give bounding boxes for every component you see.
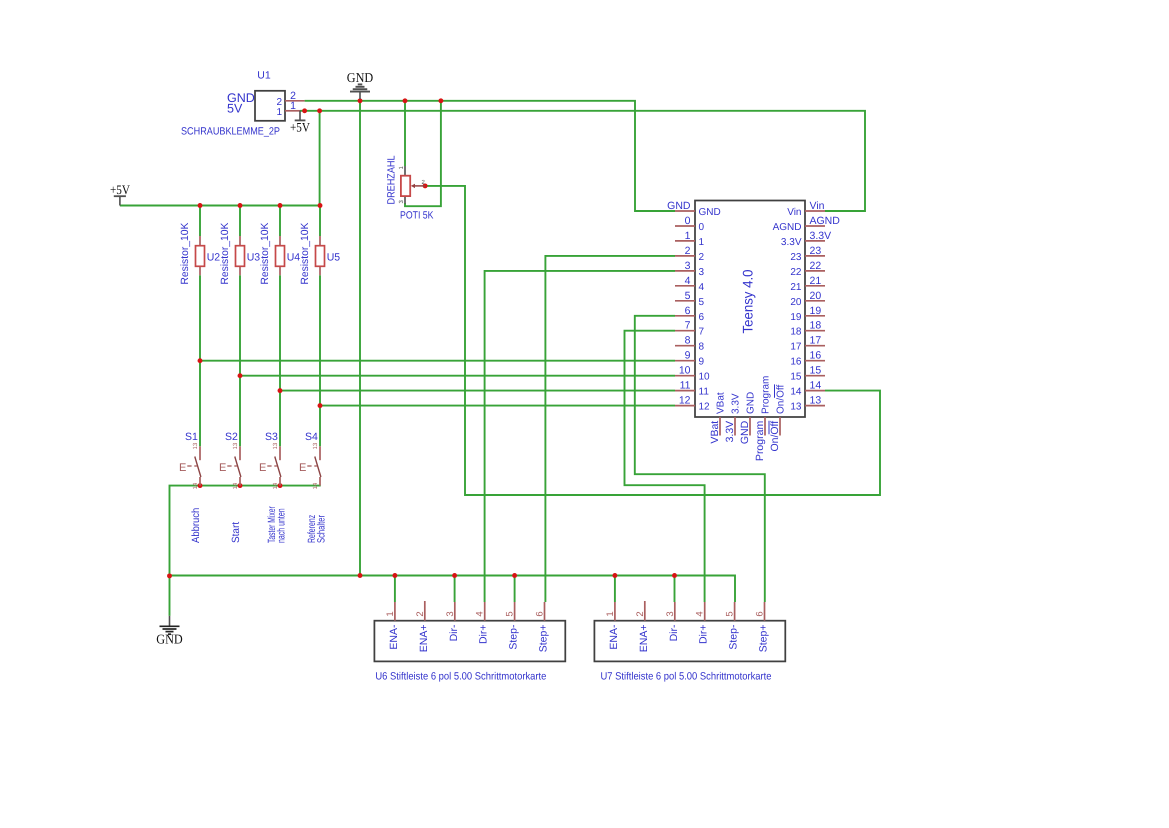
junction node S3 tap — [278, 388, 283, 393]
svg-text:1: 1 — [699, 237, 705, 248]
U7 pin 3 Dir- — [665, 602, 680, 641]
svg-text:21: 21 — [790, 282, 802, 293]
svg-text:9: 9 — [685, 350, 691, 362]
S2 pin 13 — [232, 442, 239, 449]
svg-text:10: 10 — [679, 365, 691, 377]
svg-text:3: 3 — [445, 611, 456, 616]
svg-text:U5: U5 — [327, 251, 341, 263]
svg-text:5V: 5V — [227, 102, 243, 116]
Teensy right pin 20 — [790, 290, 825, 308]
svg-text:2: 2 — [415, 611, 426, 616]
S4 pin 13 — [312, 442, 319, 449]
switch S3 — [259, 446, 281, 485]
switch S1 — [179, 446, 201, 485]
svg-text:Vin: Vin — [787, 207, 801, 218]
svg-text:Resistor_10K: Resistor_10K — [259, 223, 271, 285]
svg-text:4: 4 — [699, 282, 705, 293]
svg-text:17: 17 — [810, 335, 822, 347]
svg-text:1: 1 — [290, 100, 296, 112]
wire tap node S4 to Teensy pin12 — [320, 405, 675, 407]
Teensy right pin AGND — [773, 215, 841, 233]
svg-text:Step-: Step- — [728, 624, 740, 650]
svg-text:Resistor_10K: Resistor_10K — [179, 223, 191, 285]
svg-text:AGND: AGND — [810, 215, 841, 227]
junction +5V drop — [317, 108, 322, 113]
svg-text:4: 4 — [475, 611, 486, 616]
pin header U6 body — [374, 621, 565, 662]
S2 function label — [230, 522, 242, 543]
wire resistor bottom to switch col 320 — [319, 275, 321, 446]
svg-text:6: 6 — [685, 305, 691, 317]
svg-text:13: 13 — [790, 402, 802, 413]
junction GND rail U6p1 — [392, 573, 397, 578]
U7 pin 4 Dir+ — [695, 602, 710, 644]
S1 pin 14 — [192, 482, 199, 489]
svg-text:ENA+: ENA+ — [418, 625, 430, 653]
svg-text:13: 13 — [312, 442, 319, 449]
svg-text:16: 16 — [790, 357, 802, 368]
U6 pin 3 Dir- — [445, 602, 460, 641]
S1 reference label — [185, 431, 198, 443]
svg-text:U1: U1 — [257, 70, 271, 82]
U2 value Resistor_10K — [179, 223, 191, 285]
U1 pin 2 — [276, 90, 304, 108]
junction GND rail x360 — [358, 573, 363, 578]
svg-text:+5V: +5V — [290, 120, 311, 135]
S3 function label — [266, 506, 287, 543]
wire tap node S2 to Teensy pin10 — [240, 375, 675, 377]
wire GND bus U1 pin2 to Teensy — [305, 101, 675, 211]
svg-text:GND: GND — [739, 420, 751, 444]
U7 pin 1 ENA- — [605, 602, 620, 650]
Teensy right pin 22 — [790, 260, 825, 278]
U6 pin 4 Dir+ — [475, 602, 490, 644]
svg-text:On/Off: On/Off — [769, 421, 781, 452]
U7 pin 2 ENA+ — [635, 601, 650, 652]
wire pot wiper to Teensy pin14 — [425, 186, 880, 495]
svg-text:GND: GND — [347, 70, 374, 85]
S3 reference label — [265, 431, 278, 443]
junction GND corner — [167, 573, 172, 578]
Teensy left pin 3 — [675, 260, 705, 278]
switch S4 — [299, 446, 321, 485]
switch S2 — [219, 446, 241, 485]
svg-text:S2: S2 — [225, 431, 238, 443]
Teensy bottom pin On/Off — [769, 384, 787, 451]
svg-text:0: 0 — [685, 215, 691, 227]
svg-text:20: 20 — [810, 290, 822, 302]
svg-text:15: 15 — [790, 372, 802, 383]
svg-text:Teensy 4.0: Teensy 4.0 — [740, 269, 756, 333]
svg-text:5: 5 — [685, 290, 691, 302]
wire pot bottom loop to GND bus — [405, 101, 441, 206]
svg-text:8: 8 — [685, 335, 691, 347]
svg-text:DREHZAHL: DREHZAHL — [386, 155, 398, 204]
svg-text:1: 1 — [685, 230, 691, 242]
svg-text:23: 23 — [790, 252, 802, 263]
wire +5V bus U1 pin1 to Vin riser — [300, 111, 865, 211]
wire GND rail drop to U6 pin3 — [454, 576, 456, 603]
svg-text:8: 8 — [699, 342, 705, 353]
svg-text:+5V: +5V — [110, 182, 131, 197]
wire tap node S3 to Teensy pin11 — [280, 390, 675, 392]
Teensy bottom pin 3.3V — [724, 393, 742, 442]
power symbol +5V at U1 pin1 — [290, 111, 311, 135]
S2 reference label — [225, 431, 238, 443]
svg-text:4: 4 — [695, 611, 706, 616]
pin header U7 body — [594, 621, 785, 662]
U6 pin 6 Step+ — [535, 602, 550, 652]
junction rail U3 — [238, 203, 243, 208]
svg-text:GND: GND — [699, 207, 721, 218]
svg-text:GND: GND — [746, 392, 757, 414]
U7 value label — [601, 671, 772, 683]
Teensy title label — [740, 269, 756, 333]
U6 value label — [375, 671, 546, 683]
Teensy left pin 10 — [675, 365, 710, 383]
svg-text:13: 13 — [272, 442, 279, 449]
pot value POTI 5K — [400, 210, 434, 222]
svg-text:3.3V: 3.3V — [724, 421, 736, 443]
U3 reference label — [247, 251, 261, 263]
junction rail U5 — [318, 203, 323, 208]
svg-text:6: 6 — [699, 312, 705, 323]
svg-text:14: 14 — [192, 482, 199, 489]
svg-text:20: 20 — [790, 297, 802, 308]
svg-text:14: 14 — [790, 387, 802, 398]
Teensy right pin 23 — [790, 245, 825, 263]
Teensy right pin 14 — [790, 380, 825, 398]
wire resistor bottom to switch col 240 — [239, 275, 241, 446]
svg-text:GND: GND — [667, 200, 691, 212]
junction pot bottom — [438, 98, 443, 103]
svg-text:14: 14 — [232, 482, 239, 489]
svg-text:ENA+: ENA+ — [638, 625, 650, 653]
svg-text:3.3V: 3.3V — [731, 393, 742, 414]
wire switch common rail — [170, 486, 321, 616]
junction GND rail U7p3 — [672, 573, 677, 578]
svg-text:nach unten: nach unten — [276, 508, 288, 543]
svg-text:SCHRAUBKLEMME_2P: SCHRAUBKLEMME_2P — [181, 126, 280, 138]
wire +5V drop to resistor rail — [319, 111, 321, 206]
svg-text:ENA-: ENA- — [388, 624, 400, 650]
svg-text:3.3V: 3.3V — [810, 230, 832, 242]
svg-text:11: 11 — [699, 387, 710, 398]
junction GND rail U7p1 — [612, 573, 617, 578]
wire resistor top lead col 280 — [279, 206, 281, 237]
svg-text:ENA-: ENA- — [608, 624, 620, 650]
Teensy right pin 16 — [790, 350, 825, 368]
svg-text:1: 1 — [385, 611, 396, 616]
S2 pin 14 — [232, 482, 239, 489]
S4 pin 14 — [312, 482, 319, 489]
wire bottom GND rail — [170, 576, 736, 603]
svg-text:21: 21 — [810, 275, 822, 287]
svg-text:14: 14 — [312, 482, 319, 489]
svg-text:Dir-: Dir- — [668, 624, 680, 641]
power symbol GND bottom — [156, 616, 183, 647]
S4 reference label — [305, 431, 318, 443]
svg-text:11: 11 — [680, 380, 691, 392]
junction GND rail U6p3 — [452, 573, 457, 578]
svg-text:12: 12 — [679, 395, 691, 407]
svg-text:18: 18 — [790, 327, 802, 338]
svg-text:Dir+: Dir+ — [478, 625, 490, 645]
svg-text:14: 14 — [810, 380, 822, 392]
svg-text:Vin: Vin — [810, 200, 825, 212]
svg-text:16: 16 — [810, 350, 822, 362]
Teensy left pin 1 — [675, 230, 705, 248]
svg-text:18: 18 — [810, 320, 822, 332]
Teensy right pin 21 — [790, 275, 825, 293]
pot label DREHZAHL — [386, 155, 398, 204]
Teensy right pin 18 — [790, 320, 825, 338]
Teensy left pin 4 — [675, 275, 705, 293]
svg-text:S4: S4 — [305, 431, 318, 443]
wire resistor top lead col 240 — [239, 206, 241, 237]
wire GND rail drop to U7 pin1 — [614, 576, 616, 603]
svg-text:2: 2 — [685, 245, 691, 257]
Teensy left pin 6 — [675, 305, 705, 323]
U4 reference label — [287, 251, 301, 263]
svg-text:22: 22 — [810, 260, 822, 272]
junction switch rail S2 — [238, 483, 243, 488]
wire Teensy pin3 to U6 pin4 — [485, 271, 675, 602]
U3 value Resistor_10K — [219, 223, 231, 285]
Teensy right pin 19 — [790, 305, 825, 323]
svg-text:Step+: Step+ — [758, 625, 770, 653]
svg-text:12: 12 — [699, 402, 711, 413]
Teensy left pin 12 — [675, 395, 710, 413]
wire pot top to GND bus — [404, 101, 406, 166]
svg-text:GND: GND — [156, 631, 183, 646]
svg-text:15: 15 — [810, 365, 822, 377]
U7 pin 5 Step- — [725, 602, 740, 650]
wire GND rail drop to U6 pin5 — [514, 576, 516, 603]
svg-text:1: 1 — [276, 107, 282, 118]
S1 function label — [190, 508, 202, 543]
Teensy 4.0 body — [695, 201, 805, 418]
svg-text:VBat: VBat — [709, 421, 721, 444]
svg-text:2: 2 — [635, 611, 646, 616]
svg-text:Program: Program — [761, 376, 772, 414]
svg-text:5: 5 — [505, 611, 516, 616]
svg-text:13: 13 — [192, 442, 199, 449]
resistor U3 Resistor_10K — [236, 236, 245, 275]
power symbol +5V at resistor rail — [110, 182, 131, 205]
Teensy right pin 15 — [790, 365, 825, 383]
svg-text:Abbruch: Abbruch — [190, 508, 202, 543]
Teensy left pin 5 — [675, 290, 705, 308]
svg-text:19: 19 — [810, 305, 822, 317]
U5 reference label — [327, 251, 341, 263]
Teensy left pin 8 — [675, 335, 705, 353]
net label 5V — [227, 102, 243, 116]
svg-text:5: 5 — [699, 297, 705, 308]
wire Teensy pin6 to U7 pin6 — [635, 316, 765, 602]
U1 reference label — [257, 70, 271, 82]
svg-text:S3: S3 — [265, 431, 278, 443]
svg-text:Schalter: Schalter — [316, 515, 328, 543]
wire Teensy pin2 to U6 pin6 — [545, 256, 675, 602]
svg-text:4: 4 — [685, 275, 691, 287]
potentiometer U? DREHZAHL POTI 5K — [398, 166, 425, 204]
svg-text:6: 6 — [535, 611, 546, 616]
wire resistor bottom to switch col 280 — [279, 275, 281, 446]
wire resistor top lead col 200 — [199, 206, 201, 237]
junction node S1 tap — [198, 358, 203, 363]
Teensy right pin 17 — [790, 335, 825, 353]
Teensy left pin 2 — [675, 245, 705, 263]
S1 pin 13 — [192, 442, 199, 449]
svg-text:AGND: AGND — [773, 222, 802, 233]
svg-text:S1: S1 — [185, 431, 198, 443]
U4 value Resistor_10K — [259, 223, 271, 285]
svg-text:U6 Stiftleiste 6 pol 5.00 Sc: U6 Stiftleiste 6 pol 5.00 Schrittmotorka… — [375, 671, 546, 683]
svg-text:Step+: Step+ — [538, 625, 550, 653]
wire GND rail drop to U6 pin1 — [394, 576, 396, 603]
wire tap node S1 to Teensy pin9 — [200, 360, 675, 362]
svg-text:3: 3 — [685, 260, 691, 272]
Teensy right pin 3.3V — [781, 230, 831, 248]
junction +5V symbol at U1 — [302, 108, 307, 113]
S3 pin 14 — [272, 482, 279, 489]
resistor U5 Resistor_10K — [316, 236, 325, 275]
svg-text:Dir+: Dir+ — [698, 625, 710, 645]
svg-text:1: 1 — [605, 611, 616, 616]
resistor U2 Resistor_10K — [196, 236, 205, 275]
svg-text:Resistor_10K: Resistor_10K — [219, 223, 231, 285]
junction node S4 tap — [318, 403, 323, 408]
svg-text:5: 5 — [725, 611, 736, 616]
Teensy left pin 9 — [675, 350, 705, 368]
svg-text:7: 7 — [699, 327, 705, 338]
svg-text:3: 3 — [699, 267, 705, 278]
Teensy left pin 0 — [675, 215, 705, 233]
U1 pin 1 — [276, 100, 300, 118]
junction rail U4 — [278, 203, 283, 208]
svg-text:U7 Stiftleiste 6 pol 5.00 Sc: U7 Stiftleiste 6 pol 5.00 Schrittmotorka… — [601, 671, 772, 683]
U2 reference label — [207, 251, 221, 263]
svg-text:E: E — [179, 462, 186, 474]
U6 pin 5 Step- — [505, 602, 520, 650]
svg-text:E: E — [299, 462, 306, 474]
Teensy bottom pin Program — [754, 376, 772, 461]
wire GND rail drop to U7 pin3 — [674, 576, 676, 603]
svg-text:Start: Start — [230, 522, 242, 543]
svg-text:0: 0 — [699, 222, 705, 233]
junction node S2 tap — [238, 373, 243, 378]
junction pot wiper — [423, 183, 428, 188]
S4 function label — [306, 515, 327, 543]
net label GND — [227, 91, 255, 105]
Teensy left pin GND — [667, 200, 721, 218]
svg-text:3.3V: 3.3V — [781, 237, 802, 248]
Teensy right pin Vin — [787, 200, 825, 218]
U6 pin 2 ENA+ — [415, 601, 430, 652]
wire Teensy pin7 to U7 pin4 — [625, 331, 705, 602]
svg-text:Program: Program — [754, 421, 766, 462]
U1 value SCHRAUBKLEMME_2P — [181, 126, 280, 138]
svg-text:E: E — [219, 462, 226, 474]
junction switch rail S1 — [198, 483, 203, 488]
U5 value Resistor_10K — [299, 223, 311, 285]
svg-text:3: 3 — [665, 611, 676, 616]
wire GND vertical drop — [359, 101, 361, 576]
Teensy right pin 13 — [790, 395, 825, 413]
svg-text:VBat: VBat — [716, 392, 727, 414]
svg-text:6: 6 — [755, 611, 766, 616]
junction switch rail S3 — [278, 483, 283, 488]
svg-text:17: 17 — [790, 342, 802, 353]
junction GND rail U6p5 — [512, 573, 517, 578]
svg-text:10: 10 — [699, 372, 711, 383]
Teensy bottom pin GND — [739, 392, 757, 444]
svg-text:13: 13 — [232, 442, 239, 449]
Teensy left pin 7 — [675, 320, 705, 338]
svg-text:22: 22 — [790, 267, 802, 278]
svg-text:Step-: Step- — [508, 624, 520, 650]
screw terminal U1 body — [255, 91, 285, 121]
U7 pin 6 Step+ — [755, 602, 770, 652]
svg-text:14: 14 — [272, 482, 279, 489]
junction GND symbol top — [358, 98, 363, 103]
svg-text:19: 19 — [790, 312, 802, 323]
Teensy left pin 11 — [675, 380, 709, 398]
svg-text:E: E — [259, 462, 266, 474]
svg-text:POTI 5K: POTI 5K — [400, 210, 434, 222]
wire resistor top lead col 320 — [319, 206, 321, 237]
resistor U4 Resistor_10K — [276, 236, 285, 275]
svg-text:On/Off: On/Off — [776, 385, 787, 414]
U6 pin 1 ENA- — [385, 602, 400, 650]
svg-text:23: 23 — [810, 245, 822, 257]
wire +5V resistor rail — [120, 205, 320, 207]
svg-text:13: 13 — [810, 395, 822, 407]
junction pot top — [403, 98, 408, 103]
Teensy bottom pin VBat — [709, 392, 727, 443]
svg-text:2: 2 — [699, 252, 705, 263]
svg-text:Resistor_10K: Resistor_10K — [299, 223, 311, 285]
svg-text:7: 7 — [685, 320, 691, 332]
junction rail U2 — [198, 203, 203, 208]
power symbol GND top — [347, 70, 374, 99]
svg-text:Dir-: Dir- — [448, 624, 460, 641]
S3 pin 13 — [272, 442, 279, 449]
svg-text:9: 9 — [699, 357, 705, 368]
wire resistor bottom to switch col 200 — [199, 275, 201, 446]
